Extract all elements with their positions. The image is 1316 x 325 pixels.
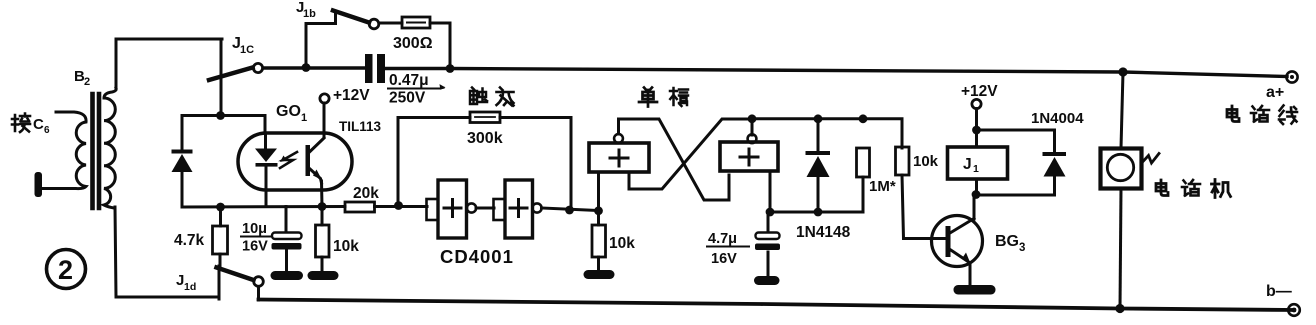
resistor 4.7k [213,207,228,267]
node junction 300k tap [394,201,403,210]
label B2 [74,68,90,88]
gate U1a CD4001 input notch [427,199,439,220]
node junction phone bottom [1115,304,1124,313]
label 接C6 [12,114,50,137]
wire opto collector to +12V [323,103,326,137]
capacitor 4.7u/16V [755,212,780,276]
wire J1b pole [306,12,336,66]
svg-text:6: 6 [44,125,50,136]
svg-text:1: 1 [973,163,979,175]
gate U1a output bubble [467,203,476,212]
svg-text:300Ω: 300Ω [393,35,433,52]
wire timing rail (y118) [752,119,902,148]
ground (4.7u cap) [754,276,780,285]
svg-text:BG: BG [995,233,1019,250]
ground (10u cap) [271,271,304,280]
gate U1b CD4001 input notch [494,199,506,220]
svg-text:10μ: 10μ [242,221,267,237]
terminal +12V (relay) [972,99,981,108]
svg-text:2: 2 [58,255,73,285]
svg-text:20k: 20k [353,185,379,202]
svg-text:4.7μ: 4.7μ [708,231,737,247]
resistor 300k [470,112,500,123]
wire relay top feed [975,109,978,148]
wire cross-couple A (mono1 top to mono2 bottom) [619,119,730,200]
label a+ [1266,84,1284,101]
label 电话线 [1227,106,1297,125]
switch J1C [209,63,263,80]
svg-text:16V: 16V [711,251,737,267]
wire phone branch lower [1120,189,1121,309]
gate U1b CD4001 body [505,180,533,238]
svg-text:b—: b— [1266,283,1292,300]
relay J1 body [948,147,1008,179]
wire relay bottom [975,179,978,195]
resistor 10k (opto emitter) [316,207,330,272]
label 触发 [470,88,514,106]
svg-text:1N4004: 1N4004 [1031,110,1084,127]
resistor 300ohm [402,17,430,28]
svg-text:0.47μ: 0.47μ [389,72,429,89]
node junction 300k feedback [565,206,574,215]
svg-text:10k: 10k [333,238,359,255]
node junction mono input [594,206,603,215]
wire gate1 to gate2 [476,207,494,210]
label 4.7k [174,232,205,249]
diode D-left branch [172,116,193,208]
svg-text:1: 1 [301,112,307,124]
wire 300ohm to rail [430,23,450,64]
monostable U2b top bubble [748,134,757,143]
label J1d [176,272,196,293]
wire top rail main [385,69,1287,77]
wire 300k left leg [398,118,470,206]
svg-text:+12V: +12V [333,87,370,104]
terminal a+ [1286,71,1297,82]
wire mono1 lower-right pin / cross-couple B [629,119,752,189]
node junction 1M top [859,114,868,123]
svg-text:1N4148: 1N4148 [796,224,851,241]
label BG3 [995,233,1025,254]
wire 20k to gate1 [375,205,428,208]
terminal +12V (opto) [320,94,329,103]
monostable U2a top bubble [614,134,623,143]
opto light arrows [280,152,297,168]
node junction phone tap [1118,67,1127,76]
node junction rect top [216,111,225,120]
label J1b [296,0,316,20]
label 10k (base) [913,153,939,170]
label 10u/16V [240,221,272,255]
node junction 4.7u top [766,208,775,217]
wire secondary bottom lead / left rail [115,207,219,297]
gate U1b output bubble [532,203,541,212]
label 10k (gate) [609,235,635,252]
label J1C [232,35,254,56]
gate U1a CD4001 body [438,180,467,238]
opto phototransistor [306,138,325,207]
svg-text:4.7k: 4.7k [174,232,205,249]
monostable U2a body [589,143,649,172]
capacitor 0.47u plates [365,54,385,83]
svg-text:16V: 16V [242,239,268,255]
ground (10k opto) [308,271,339,280]
wire top rail left (to cap) [263,66,364,69]
label GO1 [276,103,307,124]
svg-text:a+: a+ [1266,84,1284,101]
transformer B2 primary winding [43,112,86,189]
label 1N4148 [796,224,851,241]
svg-text:1M*: 1M* [869,178,896,195]
label CD4001 [440,246,514,267]
svg-text:CD4001: CD4001 [440,246,514,267]
label 300k [467,130,503,147]
wire BG3 collector up [973,195,976,220]
svg-text:10k: 10k [609,235,635,252]
label 0.47u/250V [387,72,446,107]
diode 1N4148 [806,119,831,212]
optocoupler GO1 body TIL113 [238,133,352,190]
wire mono1 lower-left pin [597,172,600,211]
label +12V (opto) [333,87,370,104]
label 10k (opto) [333,238,359,255]
monostable U2b body [720,142,778,171]
label 电话机 [1156,180,1231,198]
label +12V (relay) [961,83,998,100]
label 1N4004 [1031,110,1084,127]
wire gate2 output [542,208,600,211]
wire bottom rail [259,300,1295,311]
node junction mono2 top [748,114,757,123]
wire phone branch upper [1121,72,1123,148]
resistor 20k [345,202,375,212]
node junction 1N4148 bottom [814,208,823,217]
terminal b- [1288,304,1300,316]
svg-text:GO: GO [276,103,301,120]
svg-text:2: 2 [84,76,90,88]
diode 1N4004 [977,130,1067,195]
resistor 10k (gate output) [592,211,606,270]
svg-text:1b: 1b [303,8,316,20]
node 接C6 terminal plug [35,172,43,197]
svg-text:1C: 1C [240,44,254,56]
svg-text:250V: 250V [389,90,426,107]
switch J1b [333,11,379,29]
resistor 1M* [857,148,870,177]
opto LED [255,133,278,207]
node junction 4.7k top [216,203,225,212]
label b- [1266,283,1292,300]
node junction relay/diode bottom [972,190,981,199]
telephone set symbol [1101,149,1160,189]
svg-text:+12V: +12V [961,83,998,100]
ground (BG3 emitter) [954,285,996,295]
svg-text:300k: 300k [467,130,503,147]
label TIL113 [339,119,382,134]
figure number 2 [47,250,86,289]
switch J1d [217,266,264,300]
transformer B2 core [93,94,100,208]
label 4.7u/16V [706,231,750,267]
resistor 10k (base) [896,147,947,239]
wire secondary top lead [116,39,222,89]
svg-text:TIL113: TIL113 [339,119,382,134]
transistor BG3 [932,216,983,286]
node junction at 450 [446,64,455,73]
label 300ohm [393,35,433,52]
transformer B2 secondary winding [104,88,116,208]
svg-text:10k: 10k [913,153,939,170]
svg-text:3: 3 [1019,242,1025,254]
svg-text:C: C [33,116,44,133]
wire J1b contact to resistor [379,22,402,25]
wire rect bottom rail to 20k [182,205,345,209]
label J1 (in relay) [963,156,979,175]
node junction 1N4148 top [814,114,823,123]
node junction relay/diode top [972,126,981,135]
ground (10k gate) [584,270,615,279]
wire J1C pole [220,39,223,115]
wire mono2 lower-right pin [769,171,772,212]
wire lower timing rail (y212) [770,177,863,212]
svg-text:J: J [963,156,972,173]
node junction emitter/20k [318,202,327,211]
label 1M* [869,178,896,195]
node junction J1b tap [302,63,311,72]
wire 300k right leg [500,118,571,211]
svg-text:1d: 1d [184,281,196,293]
label 20k [353,185,379,202]
capacitor 10u/16V [272,207,302,272]
label 单稳 [639,88,688,107]
diode rectangle top edge [182,116,265,134]
